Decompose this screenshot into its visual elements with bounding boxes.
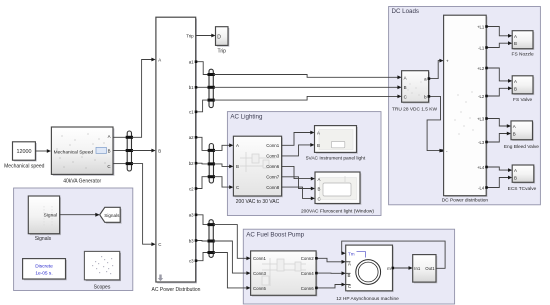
svg-text:A: A bbox=[236, 143, 239, 148]
svg-text:Conn1: Conn1 bbox=[266, 143, 279, 148]
svg-text:-L3: -L3 bbox=[478, 140, 485, 145]
subsystem block 40kVA Generator bbox=[51, 127, 114, 184]
block Discrete sample time bbox=[23, 259, 67, 281]
svg-text:A: A bbox=[317, 130, 320, 135]
svg-text:Conn5: Conn5 bbox=[253, 286, 266, 291]
svg-text:DC Power distribution: DC Power distribution bbox=[442, 198, 489, 204]
svg-text:5VAC Instrument panel light: 5VAC Instrument panel light bbox=[306, 156, 366, 162]
svg-text:B: B bbox=[404, 85, 407, 90]
svg-text:12 HP Asynchonous machine: 12 HP Asynchonous machine bbox=[336, 296, 399, 302]
wire c2 to bus2 bbox=[196, 177, 210, 189]
wire bus to AC Power Distribution input B bbox=[132, 149, 156, 153]
scope block Scopes bbox=[84, 251, 121, 290]
load block Eng Bleed Valve bbox=[504, 121, 539, 150]
wire b2 to bus2 bbox=[196, 162, 210, 165]
svg-text:C: C bbox=[236, 185, 239, 190]
svg-text:-L1: -L1 bbox=[478, 45, 485, 50]
subsystem block DC Power distribution bbox=[442, 15, 489, 203]
svg-text:AC Fuel Boost Pump: AC Fuel Boost Pump bbox=[246, 231, 304, 238]
wire b1 to bus1 bbox=[196, 86, 209, 88]
svg-text:A: A bbox=[514, 168, 517, 173]
wire a1 to bus1 bbox=[196, 62, 209, 75]
wire -L1 to FS Nozzle B bbox=[485, 41, 512, 49]
subsystem block Signals bbox=[28, 196, 61, 242]
wire bus3 to pump Conn1 bbox=[213, 225, 250, 261]
svg-text:B: B bbox=[236, 164, 239, 169]
svg-text:12000: 12000 bbox=[17, 149, 32, 155]
wire Conn1 to panel light A bbox=[282, 131, 315, 146]
wire bus to AC Power Distribution input A bbox=[132, 58, 156, 138]
goto tag Signals bbox=[100, 207, 122, 223]
svg-text:Signal: Signal bbox=[44, 213, 57, 219]
svg-text:Eng Bleed Valve: Eng Bleed Valve bbox=[504, 144, 539, 150]
wire +L3 to Eng Bleed Valve A bbox=[485, 117, 511, 128]
wire Signals to goto tag bbox=[60, 213, 100, 217]
svg-text:C: C bbox=[348, 284, 351, 289]
svg-text:+L2: +L2 bbox=[477, 66, 485, 71]
machine block 12 HP Asynchonous machine bbox=[336, 245, 399, 302]
svg-text:Conn3: Conn3 bbox=[266, 154, 279, 159]
wire +L4 to ECS TCvalve A bbox=[485, 166, 512, 172]
wire TRU a to DC distribution plus bbox=[428, 59, 444, 80]
svg-text:A: A bbox=[108, 134, 111, 139]
svg-text:B: B bbox=[348, 273, 351, 278]
load block FS Nozzle bbox=[512, 31, 535, 58]
subsystem block TRU 28 VDC 1.5 KW bbox=[392, 71, 438, 113]
wire feedback Out1 to Tm bbox=[342, 241, 446, 268]
wire bus3 to pump Conn3 bbox=[213, 241, 250, 275]
svg-text:+L3: +L3 bbox=[477, 116, 485, 121]
svg-text:200VAC Fluroscent light (Windo: 200VAC Fluroscent light (Window) bbox=[301, 208, 374, 214]
svg-text:A: A bbox=[318, 177, 321, 182]
svg-text:A: A bbox=[513, 124, 516, 129]
svg-text:B: B bbox=[317, 143, 320, 148]
wire a2 to bus2 bbox=[196, 137, 210, 150]
svg-text:200 VAC to 30 VAC: 200 VAC to 30 VAC bbox=[236, 199, 280, 205]
wire Conn8 to fluorescent C bbox=[282, 187, 315, 200]
svg-text:Conn2: Conn2 bbox=[301, 256, 314, 261]
subsystem block 200 VAC to 30 VAC bbox=[233, 136, 283, 205]
svg-text:A: A bbox=[514, 79, 517, 84]
wire bus1 to TRU A bbox=[213, 75, 401, 80]
subsystem block AC Power Distribution bbox=[152, 17, 201, 293]
wire b3 to bus3 bbox=[196, 240, 209, 243]
svg-text:1e-05 s.: 1e-05 s. bbox=[35, 270, 52, 276]
svg-text:Tm: Tm bbox=[348, 251, 355, 256]
svg-text:+L1: +L1 bbox=[477, 24, 485, 29]
svg-text:A: A bbox=[514, 34, 517, 39]
svg-text:C: C bbox=[158, 242, 161, 247]
svg-text:Out1: Out1 bbox=[425, 266, 435, 271]
bus bar 2 bbox=[208, 144, 215, 184]
svg-text:b2: b2 bbox=[189, 161, 194, 166]
wire Conn6 to machine C bbox=[315, 283, 346, 290]
svg-text:Signals: Signals bbox=[35, 236, 52, 242]
svg-text:-L4: -L4 bbox=[478, 185, 485, 190]
svg-text:A: A bbox=[348, 261, 351, 266]
wire a3 to bus3 bbox=[196, 215, 209, 225]
svg-text:Conn3: Conn3 bbox=[253, 271, 266, 276]
wire bus2 to lighting B bbox=[214, 164, 234, 168]
svg-text:B: B bbox=[514, 175, 517, 180]
svg-text:Conn7: Conn7 bbox=[266, 175, 279, 180]
svg-text:B: B bbox=[318, 187, 321, 192]
svg-text:TRU 28 VDC 1.5 KW: TRU 28 VDC 1.5 KW bbox=[392, 106, 438, 112]
wire -L4 to ECS TCvalve B bbox=[485, 176, 512, 189]
wire bus3 to pump Conn5 bbox=[213, 253, 250, 290]
svg-text:AC Power Distribution: AC Power Distribution bbox=[152, 287, 201, 293]
svg-text:Conn4: Conn4 bbox=[301, 271, 314, 276]
svg-text:A: A bbox=[158, 57, 161, 62]
bus bar 1 bbox=[208, 69, 215, 107]
svg-text:+: + bbox=[446, 59, 449, 64]
svg-text:Discrete: Discrete bbox=[35, 264, 53, 270]
svg-text:Conn1: Conn1 bbox=[253, 256, 266, 261]
svg-text:Signals: Signals bbox=[104, 213, 120, 218]
wire machine m to In1 bbox=[392, 266, 413, 270]
wire bus to AC Power Distribution input C bbox=[132, 164, 156, 247]
svg-text:b1: b1 bbox=[189, 85, 194, 90]
wire generator B to bus bbox=[113, 150, 127, 152]
svg-text:a3: a3 bbox=[189, 213, 194, 218]
wire Conn4 to machine B bbox=[315, 271, 346, 275]
svg-text:m: m bbox=[387, 266, 391, 271]
svg-text:C: C bbox=[107, 164, 110, 169]
wire c3 to bus3 bbox=[196, 253, 209, 261]
svg-text:Mechanical Speed: Mechanical Speed bbox=[54, 150, 94, 156]
wire Conn2 to machine A bbox=[315, 257, 346, 264]
area AC Fuel Boost Pump panel bbox=[243, 229, 454, 304]
wire bus1 to TRU B bbox=[213, 85, 401, 89]
data store block Trip bbox=[216, 27, 230, 55]
wire -L3 to Eng Bleed Valve B bbox=[485, 132, 511, 144]
svg-text:B: B bbox=[108, 149, 111, 154]
svg-text:a2: a2 bbox=[189, 135, 194, 140]
wire -L2 to FS Valve B bbox=[485, 86, 512, 97]
svg-text:b3: b3 bbox=[189, 238, 194, 243]
area DC Loads panel bbox=[389, 7, 541, 205]
svg-text:Conn8: Conn8 bbox=[266, 185, 279, 190]
subsystem block 200VAC Fluroscent light bbox=[301, 172, 374, 214]
svg-text:B: B bbox=[513, 132, 516, 137]
svg-text:c3: c3 bbox=[189, 259, 194, 264]
svg-text:a1: a1 bbox=[189, 60, 194, 65]
subsystem block 5VAC Instrument panel light bbox=[306, 126, 366, 162]
wire generator C to bus bbox=[113, 163, 127, 165]
wire +L2 to FS Valve A bbox=[485, 67, 512, 83]
svg-text:ECS TCvalve: ECS TCvalve bbox=[508, 186, 537, 192]
wire Conn7 to fluorescent B bbox=[282, 177, 315, 191]
svg-text:D: D bbox=[217, 34, 221, 40]
svg-text:C: C bbox=[318, 197, 321, 202]
svg-text:B: B bbox=[514, 86, 517, 91]
svg-text:DC Loads: DC Loads bbox=[392, 8, 420, 15]
svg-text:B: B bbox=[158, 148, 161, 153]
wire constant to generator bbox=[35, 149, 51, 153]
subsystem block In1 Out1 feedback bbox=[413, 255, 438, 284]
svg-text:FS Valve: FS Valve bbox=[513, 97, 532, 103]
wire bus2 to lighting A bbox=[214, 143, 234, 150]
wire bus1 to TRU C bbox=[213, 95, 401, 101]
bus bar 3 bbox=[208, 220, 215, 258]
svg-text:c2: c2 bbox=[189, 186, 194, 191]
area Signals panel bbox=[14, 188, 133, 291]
subsystem block fuel pump contactor bbox=[251, 251, 318, 297]
svg-text:Conn6: Conn6 bbox=[301, 286, 314, 291]
svg-text:AC Lighting: AC Lighting bbox=[230, 114, 263, 121]
load block ECS TCvalve bbox=[508, 165, 537, 192]
svg-text:Mechanical speed: Mechanical speed bbox=[4, 164, 45, 170]
svg-text:40kVA Generator: 40kVA Generator bbox=[63, 178, 101, 184]
svg-text:A: A bbox=[404, 75, 407, 80]
svg-text:+L4: +L4 bbox=[477, 165, 485, 170]
wire Conn6 to fluorescent A bbox=[282, 166, 315, 180]
area AC Lighting panel bbox=[227, 112, 381, 216]
wire +L1 to FS Nozzle A bbox=[485, 25, 512, 37]
svg-text:B: B bbox=[514, 41, 517, 46]
svg-text:c1: c1 bbox=[189, 110, 194, 115]
svg-text:Trip: Trip bbox=[217, 49, 226, 55]
svg-text:In1: In1 bbox=[414, 266, 421, 271]
svg-text:Scopes: Scopes bbox=[94, 285, 111, 291]
wire bus2 to lighting C bbox=[214, 177, 234, 189]
wire c1 to bus1 bbox=[196, 100, 209, 112]
wire TRU b to DC distribution minus bbox=[427, 95, 444, 152]
svg-text:-L2: -L2 bbox=[478, 94, 485, 99]
svg-text:FS Nozzle: FS Nozzle bbox=[512, 52, 534, 58]
wire Trip to data store bbox=[196, 34, 216, 38]
wire generator A to bus bbox=[113, 136, 127, 138]
wire Conn3 to panel light B bbox=[282, 143, 315, 156]
bus bar generator output bbox=[126, 131, 133, 171]
svg-text:C: C bbox=[404, 94, 407, 99]
svg-text:Trip: Trip bbox=[186, 33, 194, 38]
badge arrow under AC Power Distribution bbox=[158, 275, 163, 282]
constant block 12000 (Mechanical speed) bbox=[4, 142, 45, 170]
svg-text:Conn6: Conn6 bbox=[266, 164, 279, 169]
load block FS Valve bbox=[512, 76, 534, 103]
